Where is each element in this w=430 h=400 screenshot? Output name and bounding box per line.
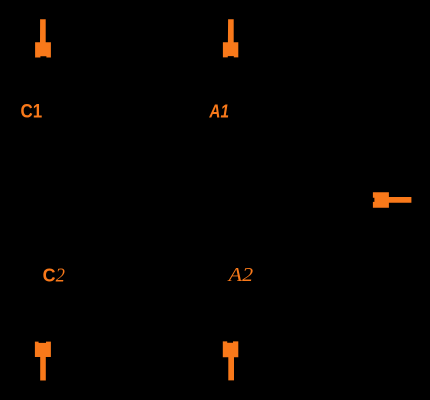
pin COMMON (right side, socket body with left notch, line right) [373, 192, 412, 208]
pin C2 (bottom-left, socket body with top notch, line down) [35, 342, 51, 381]
pin C1 (top-left, line up, socket body with bottom notch) [35, 19, 51, 57]
svg-text:2: 2 [56, 266, 66, 287]
pin A2 (bottom-right, socket body with top notch, line down) [223, 341, 239, 380]
svg-text:A1: A1 [209, 101, 229, 122]
svg-text:C: C [43, 265, 56, 286]
pin A1 (top-right, line up, socket body with bottom notch) [223, 19, 238, 57]
svg-text:A2: A2 [226, 265, 253, 286]
svg-text:C1: C1 [21, 101, 43, 123]
